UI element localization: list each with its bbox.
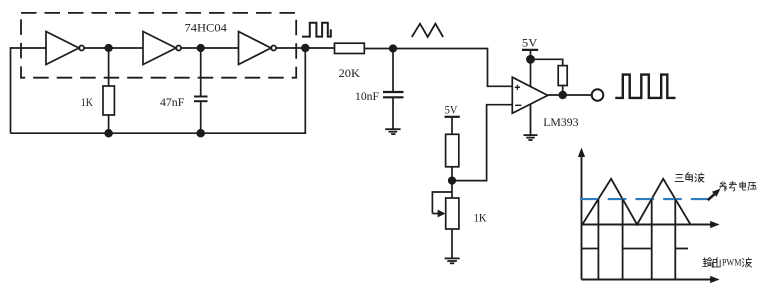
- inverter U1C: [239, 32, 277, 65]
- reference voltage dashed blue line: [580, 198, 711, 200]
- capacitor C2 10nF: [383, 49, 404, 130]
- wire: RC node to comparator: [393, 49, 512, 87]
- PWM low segment 2: [623, 248, 652, 250]
- wire: U1C out to 20K: [276, 47, 335, 49]
- svg-text:1K: 1K: [474, 211, 487, 225]
- square wave glyph at oscillator output: [302, 23, 331, 37]
- svg-text:47nF: 47nF: [160, 95, 185, 109]
- wire: divider node to comparator minus: [452, 105, 512, 181]
- svg-text:PWM: PWM: [722, 259, 742, 269]
- PWM crossing vertical 3: [651, 199, 653, 280]
- waveform diagram: vertical axis: [578, 148, 585, 280]
- potentiometer RP1 1K: [432, 192, 459, 258]
- node: junction after U1A: [105, 45, 112, 52]
- PWM low segment 1: [582, 248, 599, 250]
- ground under C2: [385, 129, 400, 134]
- wire: comparator output: [548, 94, 592, 96]
- svg-text:10nF: 10nF: [355, 89, 379, 103]
- svg-text:20K: 20K: [339, 66, 361, 80]
- label: san jiao bo (triangle wave): [675, 173, 704, 183]
- node: R1 bottom on rail: [105, 130, 112, 137]
- wire: U1B out to U1C in: [181, 47, 238, 49]
- svg-text:5V: 5V: [445, 103, 458, 117]
- supply 5V (divider): [445, 103, 460, 134]
- waveform diagram: lower time axis: [582, 276, 720, 283]
- inverter U1B: [143, 32, 181, 65]
- wire: U1A out to U1B in: [84, 47, 143, 49]
- dashed enclosure box: [21, 13, 296, 78]
- PWM crossing vertical 1: [597, 199, 599, 280]
- wire: bottom rail: [11, 48, 306, 133]
- ground under U2: [524, 104, 538, 140]
- svg-text:LM393: LM393: [543, 115, 578, 129]
- node: 5V branch: [527, 56, 534, 63]
- waveform diagram: upper time axis: [582, 221, 720, 228]
- svg-text:1K: 1K: [81, 95, 93, 109]
- output terminal circle: [592, 89, 604, 101]
- supply 5V (comparator): [522, 35, 538, 86]
- output PWM square wave glyph: [615, 75, 675, 98]
- node: C1 bottom on rail: [197, 130, 204, 137]
- resistor R2 20K: [335, 43, 394, 53]
- node: output: [559, 92, 566, 99]
- PWM low segment 3: [675, 248, 688, 250]
- svg-text:5V: 5V: [522, 35, 538, 49]
- PWM crossing vertical 4: [674, 199, 676, 280]
- comparator U2 LM393: [512, 77, 547, 113]
- svg-text:74HC04: 74HC04: [185, 23, 228, 35]
- triangle wave glyph: [412, 24, 443, 37]
- label: shu chu PWM bo (output PWM wave): [703, 257, 752, 268]
- node: junction after U1B: [197, 45, 204, 52]
- label: can kao dian ya (reference voltage): [720, 182, 757, 192]
- wire: feedback left vertical: [11, 48, 47, 133]
- node: oscillator output: [302, 45, 309, 52]
- resistor R1 1K: [103, 48, 114, 133]
- ground under RP1: [445, 258, 460, 263]
- resistor R3 (divider top): [446, 134, 459, 198]
- arrow to reference label: [708, 189, 721, 201]
- resistor R4 pull-up: [531, 59, 568, 95]
- inverter U1A: [46, 32, 84, 65]
- node: RC node: [390, 45, 397, 52]
- PWM crossing vertical 2: [622, 199, 624, 280]
- triangle waveform trace: [582, 179, 690, 225]
- capacitor C1 47nF: [194, 48, 208, 133]
- node: divider node: [449, 177, 456, 184]
